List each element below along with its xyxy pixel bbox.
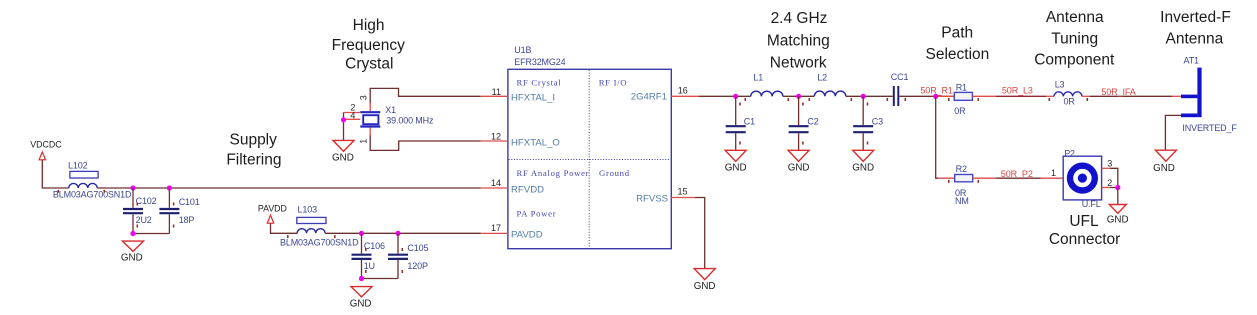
svg-text:GND: GND [852, 163, 874, 174]
ground symbol below X1 [332, 140, 354, 163]
X1 pin 1 stub [369, 128, 371, 136]
junction at C102 top [130, 185, 135, 190]
svg-text:0R: 0R [1064, 96, 1076, 106]
svg-text:AT1: AT1 [1184, 56, 1200, 66]
title Inverted-F Antenna [1160, 9, 1231, 47]
title Antenna Tuning Component [1034, 9, 1115, 69]
svg-text:High: High [353, 17, 385, 34]
inductor L3 0R [1054, 92, 1082, 96]
svg-text:C102: C102 [136, 196, 157, 206]
svg-text:C106: C106 [364, 241, 385, 251]
wire P2 ground node down [1117, 188, 1119, 205]
svg-text:R1: R1 [956, 82, 967, 92]
junction node 50R_R1 [933, 94, 938, 99]
svg-text:PA Power: PA Power [517, 209, 557, 219]
svg-text:Matching: Matching [767, 32, 830, 49]
pin tick marks on passive components [58, 98, 1089, 273]
ground symbol below C106 [350, 287, 372, 310]
junction at C1 top [733, 94, 738, 99]
wire RFVSS pin15 to ground [695, 198, 705, 269]
svg-text:50R_L3: 50R_L3 [1002, 85, 1033, 95]
inductor L1 [751, 91, 783, 96]
wire U1B pin16 to L1 [699, 95, 751, 97]
capacitor C101 [159, 188, 179, 234]
svg-text:X1: X1 [385, 105, 396, 115]
svg-text:RF Crystal: RF Crystal [517, 78, 562, 88]
svg-text:Network: Network [770, 55, 827, 72]
svg-text:3: 3 [359, 95, 369, 100]
svg-text:14: 14 [491, 178, 501, 188]
svg-text:L102: L102 [68, 160, 88, 170]
svg-text:50R_IFA: 50R_IFA [1101, 87, 1135, 97]
svg-text:RF I/O: RF I/O [599, 78, 628, 88]
U1B pin 11 stub [481, 95, 508, 97]
svg-text:GND: GND [725, 163, 747, 174]
inductor L2 [814, 91, 846, 96]
svg-text:Inverted-F: Inverted-F [1160, 9, 1231, 26]
svg-text:HFXTAL_O: HFXTAL_O [511, 137, 560, 148]
svg-text:Antenna: Antenna [1046, 9, 1104, 26]
ground symbol below C102 [121, 241, 144, 264]
wire P2 pin3 down to pin2 node [1110, 168, 1118, 187]
capacitor C105 [388, 233, 408, 278]
svg-text:RFVDD: RFVDD [511, 184, 544, 195]
svg-text:EFR32MG24: EFR32MG24 [514, 57, 565, 67]
title 2.4 GHz Matching Network [767, 10, 830, 71]
svg-text:INVERTED_F: INVERTED_F [1182, 123, 1237, 133]
P2 pin 1 stub [1041, 177, 1064, 179]
connector P2 UFL [1063, 156, 1101, 200]
svg-text:Connector: Connector [1049, 231, 1121, 248]
capacitor C2 [789, 96, 809, 150]
title Supply Filtering [226, 132, 281, 169]
U1B pin 15 stub [671, 197, 695, 199]
wire X1 pin1 to U1B pin 12 [370, 136, 481, 151]
wire L102 to pin 14 [97, 187, 480, 189]
title Path Selection [926, 25, 990, 63]
ferrite bead L102 BLM03AG700SN1D [69, 171, 98, 188]
ground symbol below P2 [1107, 205, 1129, 226]
svg-text:GND: GND [350, 298, 372, 309]
svg-text:GND: GND [1153, 163, 1175, 174]
svg-text:C2: C2 [807, 116, 818, 126]
svg-text:U1B: U1B [514, 45, 531, 55]
wire P2 pin2 to ground node [1110, 187, 1118, 189]
junction at C106 top [359, 231, 364, 236]
capacitor C106 [352, 233, 372, 278]
svg-text:RFVSS: RFVSS [636, 194, 668, 205]
wire VDCDC down and right to L102 [42, 160, 68, 188]
resistor R1 0R [938, 92, 996, 100]
svg-text:12: 12 [491, 132, 501, 142]
wire PAVDD down and right to L103 [271, 223, 298, 233]
ground symbol below C3 [852, 150, 874, 173]
svg-text:PAVDD: PAVDD [511, 230, 543, 241]
svg-text:39.000 MHz: 39.000 MHz [386, 116, 434, 126]
svg-text:2: 2 [1107, 178, 1112, 188]
capacitor C3 [853, 96, 873, 150]
junction at C101 top [167, 185, 172, 190]
svg-text:GND: GND [121, 253, 143, 264]
svg-text:L103: L103 [298, 205, 318, 215]
svg-text:Tuning: Tuning [1051, 30, 1098, 47]
junction at C102 bottom [130, 231, 135, 236]
svg-text:1U: 1U [364, 261, 375, 271]
svg-text:UFL: UFL [1069, 213, 1099, 230]
junction at C105 top [395, 231, 400, 236]
junction at P2 ground node [1115, 185, 1120, 190]
capacitor C1 [726, 96, 746, 150]
svg-text:RF Analog Power: RF Analog Power [517, 168, 590, 178]
svg-text:NM: NM [955, 196, 969, 206]
svg-text:C1: C1 [744, 116, 755, 126]
svg-text:0R: 0R [954, 106, 966, 116]
svg-text:BLM03AG700SN1D: BLM03AG700SN1D [280, 237, 359, 247]
title High Frequency Crystal [332, 17, 405, 73]
svg-text:VDCDC: VDCDC [30, 140, 62, 150]
svg-text:Supply: Supply [229, 132, 277, 149]
svg-text:16: 16 [678, 86, 688, 96]
svg-text:GND: GND [1107, 215, 1129, 226]
U1B pin 12 stub [481, 140, 508, 142]
svg-text:C101: C101 [179, 197, 200, 207]
svg-text:17: 17 [491, 223, 501, 233]
title UFL Connector [1049, 213, 1121, 248]
wire L103 to pin 17 [325, 232, 481, 234]
U1B pin 16 stub [671, 95, 699, 97]
svg-text:Crystal: Crystal [345, 55, 393, 72]
svg-text:HFXTAL_I: HFXTAL_I [511, 93, 555, 104]
ground symbol below antenna [1153, 150, 1176, 174]
svg-text:1: 1 [1051, 168, 1056, 178]
svg-text:GND: GND [694, 281, 716, 292]
capacitor C102 [123, 188, 143, 234]
wire X1 ground pins down [343, 113, 345, 141]
svg-text:1: 1 [359, 139, 369, 144]
wire L3 to antenna AT1 [1082, 95, 1090, 97]
ground symbol at RFVSS [694, 269, 715, 280]
U1B pin 17 stub [481, 232, 508, 234]
X1 pin 2 stub [344, 112, 361, 114]
svg-text:CC1: CC1 [891, 72, 909, 82]
P2 pin 2 stub [1102, 187, 1110, 189]
svg-text:50R_P2: 50R_P2 [1001, 169, 1033, 179]
svg-text:L1: L1 [753, 73, 763, 83]
junction at C2 top [796, 94, 801, 99]
crystal X1 39.000 MHz [360, 112, 380, 126]
svg-text:PAVDD: PAVDD [258, 204, 287, 214]
svg-text:Antenna: Antenna [1166, 30, 1224, 47]
ferrite bead L103 BLM03AG700SN1D [297, 217, 326, 233]
wire antenna ground stub to GND [1165, 115, 1181, 150]
svg-text:Ground: Ground [599, 168, 630, 178]
capacitor CC1 [894, 86, 899, 106]
svg-text:L3: L3 [1055, 80, 1065, 90]
svg-text:2U2: 2U2 [136, 215, 152, 225]
wire X1 pin3 to U1B pin 11 [370, 88, 481, 103]
svg-text:GND: GND [788, 163, 810, 174]
svg-text:U.FL: U.FL [1082, 199, 1101, 209]
X1 pin 4 stub [344, 118, 361, 120]
svg-text:11: 11 [492, 87, 501, 97]
svg-text:2.4 GHz: 2.4 GHz [771, 10, 828, 27]
wire L2 to CC1 [846, 95, 893, 97]
svg-text:C3: C3 [872, 116, 883, 126]
wire CC1 to node 50R_R1 [899, 95, 954, 97]
ground symbol below C2 [788, 150, 810, 173]
wire L1 to L2 [783, 95, 814, 97]
wire R1 to L3 [996, 95, 1046, 97]
wire R2 to P2 pin 1 [996, 177, 1041, 179]
svg-text:3: 3 [1107, 159, 1112, 169]
stub into antenna feed [1172, 95, 1181, 97]
wire C106 bottom to C105 bottom [362, 278, 399, 280]
junction at C106 bottom [359, 276, 364, 281]
wire C102 bottom to C101 bottom [133, 233, 169, 235]
resistor R2 0R NM [938, 175, 996, 182]
svg-text:4: 4 [350, 110, 355, 120]
svg-text:Filtering: Filtering [226, 151, 281, 168]
svg-text:R2: R2 [956, 164, 967, 174]
svg-text:Path: Path [941, 25, 973, 42]
svg-text:P2: P2 [1064, 148, 1075, 158]
svg-text:18P: 18P [179, 215, 195, 225]
U1B pin 14 stub [481, 187, 508, 189]
svg-text:Selection: Selection [926, 46, 990, 63]
power symbol PAVDD [258, 204, 287, 224]
ground symbol below C1 [725, 150, 747, 173]
P2 pin 3 stub [1102, 167, 1110, 169]
svg-text:2G4RF1: 2G4RF1 [631, 92, 667, 103]
svg-text:BLM03AG700SN1D: BLM03AG700SN1D [53, 189, 132, 199]
power symbol VDCDC [30, 140, 62, 160]
svg-text:Component: Component [1034, 52, 1115, 69]
junction at X1 pin 4 [341, 117, 346, 122]
op-amp U1B EFR32MG24 IC body [508, 69, 671, 248]
X1 pin 3 stub [369, 103, 371, 111]
svg-text:Frequency: Frequency [332, 37, 405, 54]
svg-text:GND: GND [332, 153, 354, 164]
antenna AT1 inverted-F [1181, 68, 1202, 118]
wire node 50R_R1 down to R2 [936, 96, 938, 178]
svg-text:120P: 120P [407, 261, 428, 271]
svg-text:15: 15 [678, 186, 688, 196]
svg-text:L2: L2 [817, 73, 827, 83]
junction at C3 top [861, 94, 866, 99]
svg-text:C105: C105 [407, 243, 428, 253]
